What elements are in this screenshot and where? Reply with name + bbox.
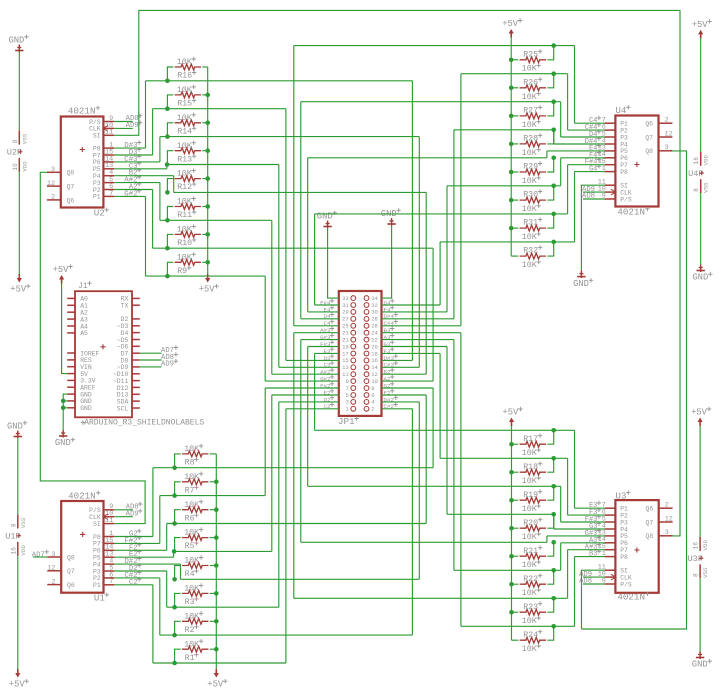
wire net G3: U3 pin to line bbox=[554, 528, 605, 530]
resistor R19 10K bbox=[520, 497, 546, 503]
J1 pin VIN bbox=[67, 366, 75, 368]
svg-text:10K: 10K bbox=[184, 557, 199, 566]
wire net C3: fan vertical to JP1 left pin bbox=[278, 165, 280, 368]
junction +5V bus / R30 bbox=[509, 198, 514, 203]
svg-text:10K: 10K bbox=[177, 253, 192, 262]
U2 pin 4 (P4) net B2 bbox=[103, 175, 114, 177]
JP1 pad pair pins 31/32 bbox=[351, 303, 356, 308]
U4 pin 4 (P4) net D#4 bbox=[605, 143, 616, 145]
svg-text:16: 16 bbox=[693, 542, 700, 550]
svg-text:A5: A5 bbox=[80, 330, 88, 337]
svg-text:Q8: Q8 bbox=[645, 148, 653, 155]
svg-text:AD9: AD9 bbox=[126, 122, 139, 130]
wire net F#2: U1 pin to line bbox=[114, 542, 160, 544]
junction net A#2 / resistor lead bbox=[165, 218, 170, 223]
wire R4 right lead to +5V bus bbox=[210, 565, 217, 567]
svg-text:4021N: 4021N bbox=[617, 207, 645, 218]
svg-text:29: 29 bbox=[342, 309, 349, 316]
wire R7 right lead to +5V bus bbox=[210, 481, 217, 483]
junction net E4 / resistor riser bbox=[551, 156, 556, 161]
wire R9 right lead to +5V bus bbox=[202, 261, 207, 263]
wire net E2: fan vertical to JP1 left pin bbox=[271, 395, 273, 551]
junction net C3 / resistor lead bbox=[165, 162, 170, 167]
svg-text:R7: R7 bbox=[185, 486, 195, 495]
wire +5V to U3P VDD bbox=[699, 426, 701, 537]
wire U2P VDD to +5V bbox=[18, 172, 20, 275]
resistor R18 10K bbox=[520, 469, 546, 475]
J1 pin A0 bbox=[67, 297, 75, 299]
svg-text:10K: 10K bbox=[177, 86, 192, 95]
junction net D#3 / resistor lead bbox=[165, 79, 170, 84]
U2 pin 10 (CLK) bbox=[103, 127, 114, 129]
junction net A#3 / resistor riser bbox=[551, 596, 556, 601]
svg-text:AD8: AD8 bbox=[582, 193, 595, 201]
svg-text:U2: U2 bbox=[94, 208, 105, 219]
svg-text:10K: 10K bbox=[522, 177, 537, 186]
U4 pin 3 (Q8) bbox=[659, 150, 673, 152]
wire net F4: horizontal line bbox=[447, 185, 561, 187]
wire R12 right lead to +5V bus bbox=[202, 178, 207, 180]
junction +5V bus / R17 bbox=[509, 442, 514, 447]
resistor R6 10K bbox=[182, 507, 208, 513]
svg-text:R6: R6 bbox=[185, 514, 195, 523]
svg-text:Q7: Q7 bbox=[67, 184, 75, 191]
wire R25 left lead to +5V bus bbox=[511, 59, 518, 61]
svg-text:R25: R25 bbox=[523, 50, 538, 59]
svg-text:10K: 10K bbox=[522, 205, 537, 214]
JP1 pad pair pins 21/22 bbox=[351, 337, 356, 342]
wire R3 right lead to +5V bus bbox=[210, 592, 217, 594]
wire net D#3: fan vertical to JP1 right pin bbox=[411, 81, 413, 361]
svg-text:10: 10 bbox=[371, 378, 378, 385]
svg-text:10K: 10K bbox=[522, 505, 537, 514]
svg-text:P1: P1 bbox=[93, 582, 101, 589]
wire net F4: U4 pin to line bbox=[561, 157, 605, 159]
svg-text:R12: R12 bbox=[177, 183, 192, 192]
wire R5 right lead to +5V bus bbox=[210, 537, 217, 539]
wire R16 right lead to +5V bus bbox=[202, 66, 207, 68]
wire net D4: horizontal line bbox=[301, 101, 561, 103]
IC U1 4021N body bbox=[61, 501, 103, 593]
svg-text:10K: 10K bbox=[522, 561, 537, 570]
connector JP1 body bbox=[339, 291, 382, 416]
U2 pin 13 (P5) net C3 bbox=[103, 168, 114, 170]
wire net A2: U2 pin to line bbox=[114, 189, 152, 191]
ground GND above JP1 pin 34 bbox=[391, 218, 393, 226]
svg-text:3: 3 bbox=[51, 166, 55, 174]
wire net G2: fan vertical to JP1 right pin bbox=[432, 388, 434, 468]
J1 pin D12 bbox=[132, 386, 140, 388]
junction +5V bus / R1 bbox=[214, 647, 219, 652]
resistor R16 10K bbox=[175, 64, 201, 70]
wire net G#2: horizontal line bbox=[146, 275, 266, 277]
wire net A3: U3 pin to line bbox=[561, 542, 605, 544]
wire net F#2: horizontal line bbox=[160, 495, 265, 497]
wire net F#3: fan vertical to JP1 left pin bbox=[307, 347, 309, 487]
svg-text:VDD: VDD bbox=[702, 540, 709, 551]
U1 pin 12 (Q7) bbox=[47, 570, 61, 572]
svg-text:GND: GND bbox=[692, 660, 708, 670]
wire net D#4: horizontal line bbox=[454, 129, 554, 131]
wire R2 right lead to +5V bus bbox=[210, 620, 217, 622]
svg-text:B3: B3 bbox=[589, 551, 597, 559]
wire net A#3: U3 pin to line bbox=[568, 549, 605, 551]
resistor R12 10K bbox=[175, 176, 201, 182]
U4 pin 15 (P7) net F#4 bbox=[605, 164, 616, 166]
J1 pin A2 bbox=[67, 311, 75, 313]
svg-text:+5V: +5V bbox=[199, 285, 216, 295]
svg-text:P1: P1 bbox=[93, 194, 101, 201]
wire net C4: fan vertical to JP1 left pin bbox=[293, 46, 295, 326]
svg-text:16: 16 bbox=[693, 157, 700, 165]
wire net A#3: horizontal line bbox=[294, 597, 568, 599]
wire net U2.Q8 to U1.SI bbox=[40, 172, 145, 523]
wire R3 left lead to net line bbox=[175, 593, 181, 607]
svg-text:R10: R10 bbox=[177, 239, 192, 248]
wire R14 right lead to +5V bus bbox=[202, 122, 207, 124]
wire R2 left lead to net line bbox=[175, 621, 181, 635]
U3 pin 11 (SI) bbox=[605, 569, 616, 571]
wire JP1 pin33 to GND bbox=[328, 228, 339, 298]
wire net A2: horizontal line bbox=[153, 247, 434, 249]
J1 pin SCL bbox=[132, 407, 140, 409]
svg-text:10K: 10K bbox=[522, 93, 537, 102]
junction +5V bus / R26 bbox=[509, 86, 514, 91]
wire net F3: horizontal line bbox=[440, 457, 567, 459]
wire R23 right lead riser to net line bbox=[547, 598, 553, 612]
wire net A#2: horizontal line bbox=[160, 219, 272, 221]
svg-text:R27: R27 bbox=[523, 107, 538, 116]
wire R19 left lead to +5V bus bbox=[512, 499, 519, 501]
svg-text:R19: R19 bbox=[523, 491, 538, 500]
wire J1 D9 to net AD9 bbox=[140, 366, 162, 368]
svg-text:10K: 10K bbox=[177, 142, 192, 151]
svg-text:R20: R20 bbox=[523, 519, 538, 528]
junction J1 GND pin 3 bbox=[61, 406, 66, 411]
U4 pin 9 (P/S) bbox=[605, 198, 616, 200]
wire R27 left lead to +5V bus bbox=[511, 115, 518, 117]
power symbol +5V above J1 bbox=[59, 275, 64, 280]
J1 pin ~D9 bbox=[132, 366, 140, 368]
U3 pin 6 (P2) net F3 bbox=[605, 514, 616, 516]
U1 pin 4 (P4) net D#2 bbox=[104, 563, 115, 565]
U4 pin 5 (P3) net D4 bbox=[605, 136, 616, 138]
wire net E3: fan vertical to JP1 left pin bbox=[314, 353, 316, 430]
JP1 pad pair pins 3/4 bbox=[351, 400, 356, 405]
JP1 pad pair pins 1/2 bbox=[351, 406, 356, 411]
wire net F#4: U4 pin to line bbox=[568, 164, 605, 166]
wire net D2: fan vertical to JP1 left pin bbox=[278, 402, 280, 607]
svg-text:GND: GND bbox=[9, 35, 25, 45]
wire net F#3: U3 pin to line bbox=[561, 521, 605, 523]
junction +5V bus / R9 bbox=[205, 260, 210, 265]
svg-text:7: 7 bbox=[109, 190, 113, 198]
U2 pin 3 (Q8) bbox=[47, 171, 61, 173]
wire net D#4: U4 pin to line bbox=[554, 143, 605, 145]
junction +5V bus / R7 bbox=[214, 480, 219, 485]
wire R1 left lead to net line bbox=[175, 649, 181, 663]
J1 pin ~D10 bbox=[132, 373, 140, 375]
wire R28 left lead to +5V bus bbox=[511, 143, 518, 145]
svg-text:9: 9 bbox=[345, 378, 348, 385]
wire net D2: U1 pin to line bbox=[114, 570, 166, 572]
J1 pin TX bbox=[132, 304, 140, 306]
wire R23 left lead to +5V bus bbox=[512, 611, 519, 613]
wire R29 right lead riser to net line bbox=[547, 158, 553, 172]
IC U3 4021N body bbox=[615, 500, 658, 593]
svg-text:10K: 10K bbox=[184, 473, 199, 482]
wire R1 right lead to +5V bus bbox=[210, 648, 217, 650]
J1 pin D2 bbox=[132, 318, 140, 320]
svg-text:GND: GND bbox=[573, 279, 589, 289]
net label AD8 at U1 P/S bbox=[114, 509, 133, 511]
wire R13 right lead to +5V bus bbox=[202, 150, 207, 152]
U3 pin 4 (P4) net G3 bbox=[605, 528, 616, 530]
wire R14 left lead to net line bbox=[167, 123, 173, 137]
svg-text:R26: R26 bbox=[523, 78, 538, 87]
wire U3P VSS to GND bbox=[699, 578, 701, 651]
wire U1.Q8 to net AD7 bbox=[33, 556, 47, 558]
wire R5 left lead to net line bbox=[175, 538, 181, 552]
wire net U4.Q8 to U3.SI bbox=[582, 151, 687, 629]
svg-text:R9: R9 bbox=[177, 267, 187, 276]
U4 pin 12 (Q7) bbox=[659, 136, 673, 138]
junction +5V bus / R15 bbox=[205, 93, 210, 98]
wire R8 left lead to net line bbox=[175, 454, 181, 468]
svg-text:SCL: SCL bbox=[117, 405, 129, 412]
wire R20 left lead to +5V bus bbox=[512, 527, 519, 529]
junction net E2 / resistor lead bbox=[172, 549, 177, 554]
svg-text:10K: 10K bbox=[522, 261, 537, 270]
resistor R22 10K bbox=[520, 581, 546, 587]
JP1 pad pair pins 7/8 bbox=[351, 386, 356, 391]
svg-text:GND: GND bbox=[80, 405, 92, 412]
svg-text:2: 2 bbox=[665, 502, 669, 510]
wire net C#2: U1 pin to line bbox=[114, 577, 160, 579]
svg-text:AD9: AD9 bbox=[161, 361, 174, 369]
wire R11 left lead to net line bbox=[167, 207, 173, 221]
J1 pin GND bbox=[67, 400, 75, 402]
svg-text:R30: R30 bbox=[523, 191, 538, 200]
svg-text:P/S: P/S bbox=[620, 196, 632, 203]
J1 pin RX bbox=[132, 297, 140, 299]
IC U4 4021N body bbox=[615, 116, 658, 207]
svg-text:R11: R11 bbox=[177, 211, 192, 220]
svg-text:VDD: VDD bbox=[21, 161, 28, 172]
resistor R30 10K bbox=[520, 197, 546, 203]
wire GND to U2P VSS bbox=[18, 52, 20, 131]
J1 pin IOREF bbox=[67, 352, 75, 354]
wire +5V bus (top-left resistor column) bbox=[207, 67, 209, 274]
resistor R31 10K bbox=[520, 225, 546, 231]
wire R26 right lead riser to net line bbox=[547, 74, 553, 88]
svg-text:11: 11 bbox=[105, 517, 113, 525]
J1 pin A4 bbox=[67, 325, 75, 327]
svg-text:Q8: Q8 bbox=[67, 170, 75, 177]
net label AD9 at U1 CLK bbox=[114, 516, 133, 518]
net label AD9 at U4 CLK bbox=[583, 191, 605, 193]
junction +5V bus / R14 bbox=[205, 121, 210, 126]
wire net A3: horizontal line bbox=[454, 569, 561, 571]
wire net G3: horizontal line bbox=[447, 513, 554, 515]
svg-text:3: 3 bbox=[665, 529, 669, 537]
junction net D3 / resistor lead bbox=[165, 106, 170, 111]
svg-text:G4: G4 bbox=[589, 166, 597, 174]
JP1 pad pair pins 13/14 bbox=[351, 365, 356, 370]
wire net F3: U3 pin to line bbox=[568, 514, 605, 516]
resistor R20 10K bbox=[520, 525, 546, 531]
svg-text:8: 8 bbox=[693, 573, 700, 577]
svg-text:+5V: +5V bbox=[503, 408, 520, 418]
wire net G#2: fan vertical to JP1 left pin bbox=[264, 276, 266, 381]
junction net G4 / resistor riser bbox=[551, 240, 556, 245]
wire net C#2: horizontal line bbox=[160, 634, 413, 636]
svg-text:G#2: G#2 bbox=[124, 190, 137, 198]
JP1 pad pair pins 27/28 bbox=[351, 317, 356, 322]
junction +5V bus / R25 bbox=[509, 58, 514, 63]
power gate U1P with GND above and +5V below bbox=[17, 431, 19, 439]
wire R31 right lead riser to net line bbox=[547, 214, 553, 228]
svg-text:10K: 10K bbox=[522, 121, 537, 130]
junction net D#2 / resistor lead bbox=[172, 577, 177, 582]
U3 pin 12 (Q7) bbox=[659, 521, 673, 523]
wire R6 right lead to +5V bus bbox=[210, 509, 217, 511]
wire R32 left lead to +5V bus bbox=[511, 255, 518, 257]
wire net C#3: horizontal line bbox=[160, 136, 419, 138]
svg-text:VDD: VDD bbox=[703, 154, 710, 165]
J1 pin SDA bbox=[132, 400, 140, 402]
svg-text:J1: J1 bbox=[78, 282, 88, 291]
U4 pin 14 (P6) net F4 bbox=[605, 157, 616, 159]
resistor R11 10K bbox=[175, 204, 201, 210]
svg-text:10K: 10K bbox=[522, 533, 537, 542]
U2 pin 11 (SI) bbox=[103, 134, 114, 136]
junction net C4 / resistor riser bbox=[551, 43, 556, 48]
J1 pin D8 bbox=[132, 359, 140, 361]
wire R12 left lead to net line bbox=[167, 179, 173, 193]
J1 pin ~D5 bbox=[132, 339, 140, 341]
wire net A#2: fan vertical to JP1 left pin bbox=[271, 220, 273, 374]
JP1 pad pair pins 25/26 bbox=[351, 323, 356, 328]
wire net B2: U2 pin to line bbox=[114, 175, 174, 177]
svg-text:10K: 10K bbox=[184, 585, 199, 594]
wire R17 right lead riser to net line bbox=[547, 430, 553, 444]
wire net C#3: U2 pin to line bbox=[114, 161, 160, 163]
svg-text:Q7: Q7 bbox=[67, 568, 75, 575]
wire net D4: fan vertical to JP1 left pin bbox=[300, 102, 302, 319]
wire net C#4: fan vertical to JP1 right pin bbox=[460, 74, 462, 326]
wire +5V to U4P VDD bbox=[700, 38, 702, 151]
svg-text:R28: R28 bbox=[523, 135, 538, 144]
resistor R8 10K bbox=[182, 451, 208, 457]
U1 pin 3 (Q8) bbox=[47, 556, 61, 558]
junction net D4 / resistor riser bbox=[551, 99, 556, 104]
JP1 pad pair pins 9/10 bbox=[351, 379, 356, 384]
svg-text:10K: 10K bbox=[522, 589, 537, 598]
wire net E4: horizontal line bbox=[308, 157, 547, 159]
wire R26 left lead to +5V bus bbox=[511, 87, 518, 89]
svg-text:+5V: +5V bbox=[502, 19, 519, 29]
U4 pin 7 (P1) net C4 bbox=[605, 122, 616, 124]
JP1 pad pair pins 17/18 bbox=[351, 351, 356, 356]
JP1 pad pair pins 11/12 bbox=[351, 372, 356, 377]
resistor R29 10K bbox=[520, 169, 546, 175]
U3 pin 5 (P3) net F#3 bbox=[605, 521, 616, 523]
wire R22 right lead riser to net line bbox=[547, 570, 553, 584]
wire R11 right lead to +5V bus bbox=[202, 206, 207, 208]
svg-text:4021N: 4021N bbox=[68, 491, 96, 502]
wire net B3: U3 pin to line bbox=[575, 556, 605, 558]
junction net F4 / resistor riser bbox=[551, 184, 556, 189]
svg-text:+5V: +5V bbox=[692, 20, 709, 30]
J1 pin RES bbox=[67, 359, 75, 361]
svg-text:R15: R15 bbox=[177, 100, 192, 109]
svg-text:30: 30 bbox=[371, 309, 378, 316]
J1 pin D7 bbox=[132, 352, 140, 354]
junction +5V bus / R19 bbox=[509, 498, 514, 503]
svg-text:2: 2 bbox=[665, 117, 669, 125]
resistor R2 10K bbox=[182, 618, 208, 624]
svg-text:AD7: AD7 bbox=[32, 551, 45, 559]
wire net G4: horizontal line bbox=[440, 241, 574, 243]
J1 pin D13 bbox=[132, 393, 140, 395]
power gate U2P with GND above and +5V below bbox=[18, 45, 20, 53]
wire net B2: fan vertical to JP1 right pin bbox=[425, 192, 427, 374]
wire R7 left lead to net line bbox=[175, 482, 181, 496]
svg-text:R24: R24 bbox=[523, 631, 538, 640]
J1 pin 3.3V bbox=[67, 379, 75, 381]
U4 pin 1 (P8) net G4 bbox=[605, 171, 616, 173]
U2 pin 12 (Q7) bbox=[47, 185, 61, 187]
wire R25 right lead riser to net line bbox=[547, 46, 553, 60]
wire net C#4: U4 pin to line bbox=[568, 129, 605, 131]
U3 pin 1 (P8) net B3 bbox=[605, 556, 616, 558]
svg-text:R5: R5 bbox=[185, 542, 195, 551]
svg-text:7: 7 bbox=[109, 578, 113, 586]
svg-text:P8: P8 bbox=[620, 169, 628, 176]
resistor R24 10K bbox=[520, 637, 546, 643]
svg-text:R1: R1 bbox=[185, 654, 195, 663]
wire net G#2: U2 pin to line bbox=[114, 195, 145, 197]
wire net G3: fan vertical to JP1 right pin bbox=[446, 347, 448, 515]
svg-text:GND: GND bbox=[55, 438, 71, 448]
wire R16 left lead to net line bbox=[167, 67, 173, 81]
wire net G4: U4 pin to line bbox=[575, 171, 605, 173]
wire R19 right lead riser to net line bbox=[547, 486, 553, 500]
J1 pin A5 bbox=[67, 332, 75, 334]
svg-text:8: 8 bbox=[12, 139, 19, 143]
wire GND to U1P VSS bbox=[17, 438, 19, 515]
wire R21 right lead riser to net line bbox=[547, 542, 553, 556]
svg-text:Q6: Q6 bbox=[646, 506, 654, 513]
J1 pin ~D3 bbox=[132, 325, 140, 327]
wire J1 5V pin to +5V bbox=[62, 284, 68, 374]
svg-text:TX: TX bbox=[121, 303, 129, 310]
wire net D3: U2 pin to line bbox=[114, 154, 152, 156]
junction net D#4 / resistor riser bbox=[551, 128, 556, 133]
svg-text:JP1: JP1 bbox=[338, 416, 355, 427]
svg-text:Q6: Q6 bbox=[67, 582, 75, 589]
svg-text:VSS: VSS bbox=[21, 133, 28, 144]
U3 pin 13 (P5) net G#3 bbox=[605, 535, 616, 537]
svg-text:Q7: Q7 bbox=[645, 134, 653, 141]
wire R18 right lead riser to net line bbox=[547, 458, 553, 472]
wire net U3.Q8 to U2.SI (top line) bbox=[114, 10, 680, 536]
wire U1P VDD to +5V bbox=[17, 556, 19, 669]
junction +5V bus / R20 bbox=[509, 526, 514, 531]
svg-text:R16: R16 bbox=[177, 72, 192, 81]
wire net E3: horizontal line bbox=[315, 429, 575, 431]
